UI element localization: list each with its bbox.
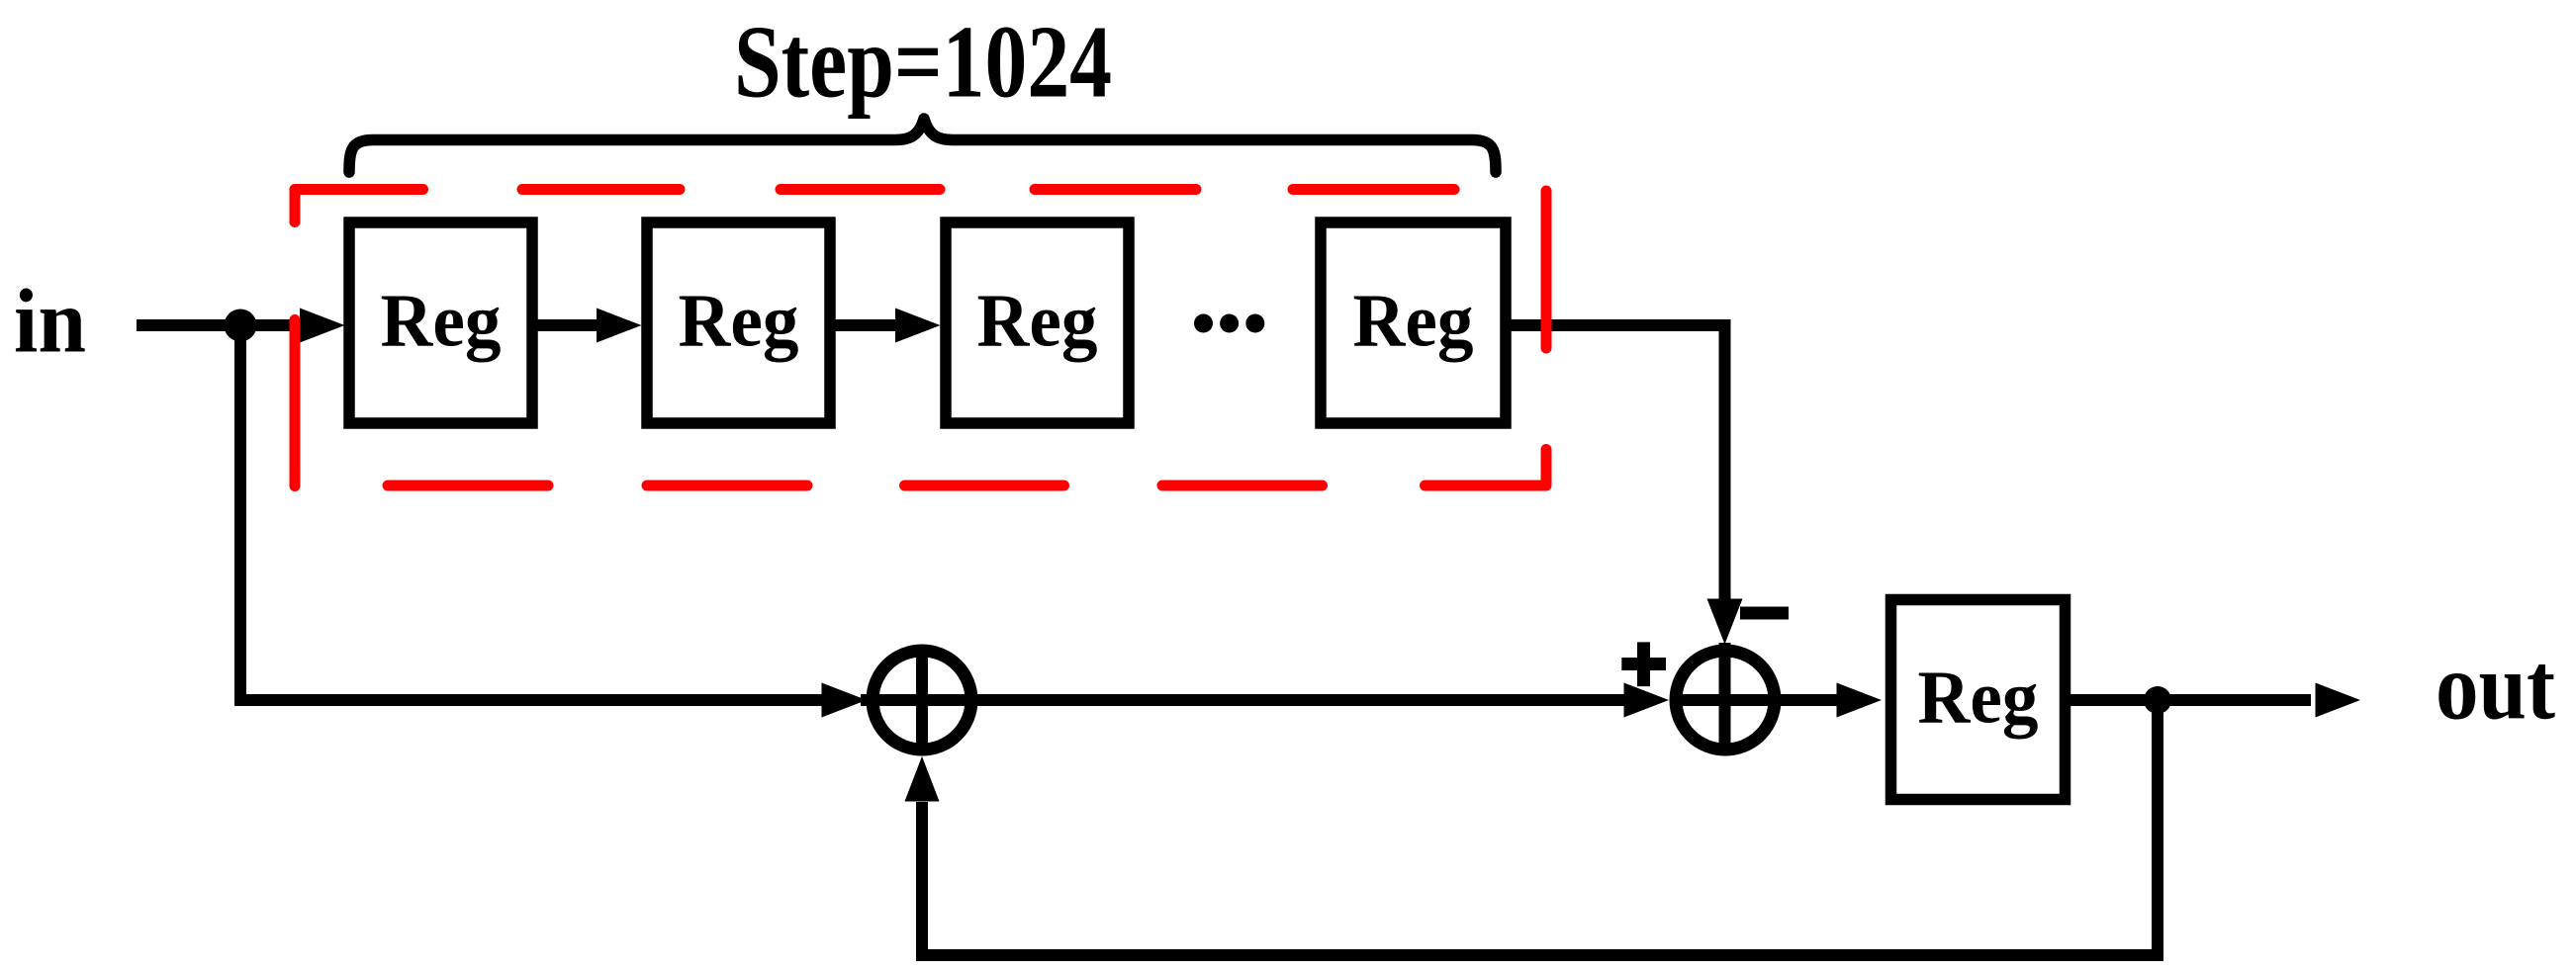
svg-text:Reg: Reg xyxy=(1353,280,1474,363)
svg-text:Reg: Reg xyxy=(381,280,502,363)
svg-text:in: in xyxy=(14,271,86,372)
svg-text:out: out xyxy=(2436,634,2555,740)
svg-text:Step=1024: Step=1024 xyxy=(734,3,1112,119)
svg-text:Reg: Reg xyxy=(977,280,1098,363)
svg-text:Reg: Reg xyxy=(1918,657,2039,740)
svg-text:Reg: Reg xyxy=(679,280,799,363)
